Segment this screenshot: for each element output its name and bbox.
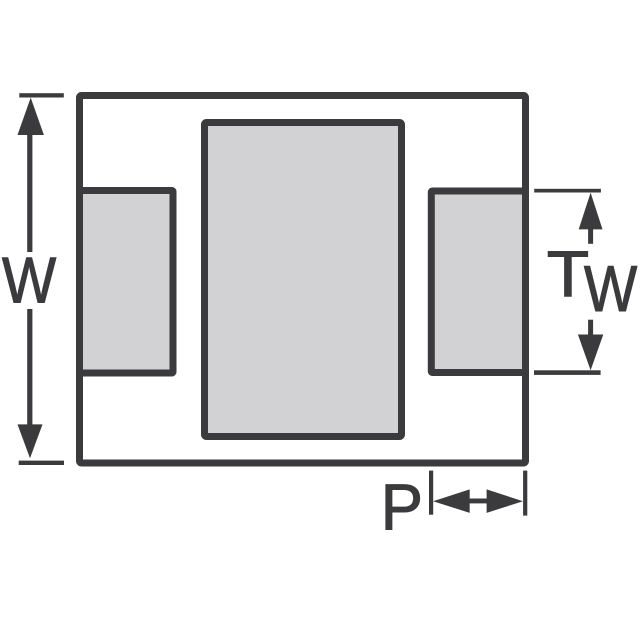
dimension W: down arrowhead <box>18 424 43 458</box>
dimension P: right arrowhead <box>487 489 523 513</box>
dimension W: up arrowhead <box>18 98 44 135</box>
dimension P: left tick <box>429 471 433 515</box>
dimension TW: lower stem <box>588 320 593 336</box>
dimension TW: upper stem <box>588 227 593 243</box>
dimension TW: top tick <box>534 189 601 193</box>
left terminal pad <box>80 191 174 374</box>
right terminal pad <box>431 191 525 373</box>
dimension W: lower stem <box>27 309 32 426</box>
dimension W: bottom tick <box>19 461 64 465</box>
dimension P: middle stem <box>467 499 489 504</box>
svg-text:W: W <box>584 252 638 325</box>
dimension W: upper stem <box>27 133 32 252</box>
dimension TW: up arrowhead <box>579 193 603 230</box>
dimension P: left arrowhead <box>433 489 470 513</box>
svg-text:P: P <box>381 471 423 544</box>
dimension TW: down arrowhead <box>578 335 603 371</box>
dimension TW: bottom tick <box>534 370 601 375</box>
component body outline <box>80 96 526 464</box>
dimension W: top tick <box>19 93 64 97</box>
dimension P: right tick <box>523 471 527 516</box>
center body pad <box>205 123 402 437</box>
svg-text:W: W <box>2 243 57 316</box>
svg-text:T: T <box>547 237 589 310</box>
